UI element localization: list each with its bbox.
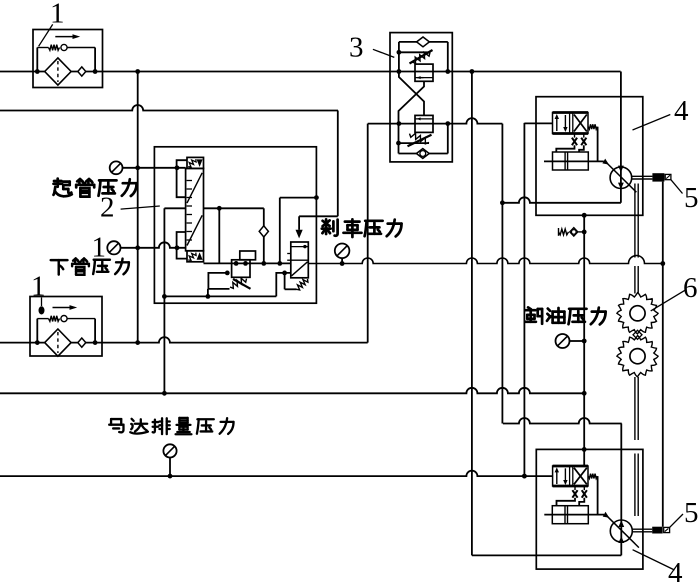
- label text motor displacement pressure: [109, 419, 123, 432]
- label 4 (top) with leader: [633, 115, 671, 131]
- filter 2 check valve: [78, 338, 86, 347]
- filter 2 bypass relief: [36, 319, 38, 343]
- valve block 2 enclosure: [154, 147, 316, 303]
- filter 1 flow arrow: [55, 36, 74, 38]
- wire supply line y=476.1: [0, 471, 553, 477]
- wire pilot elbow y=216.3: [299, 215, 338, 217]
- wire drain riser to brake valve port: [276, 273, 291, 297]
- orifice X symbols bottom: [574, 486, 576, 490]
- comp3 cross line A: [399, 81, 425, 123]
- main valve bottom spring-arrow box: [187, 251, 204, 262]
- servo cylinder top assembly: [553, 152, 589, 170]
- wire valve mid port y=208.3: [164, 207, 185, 209]
- main control valve column: [186, 168, 204, 250]
- wire pump line P2 y=110.5: [0, 105, 338, 110]
- svg-text:5: 5: [684, 182, 699, 214]
- gear wheel upper: [617, 293, 658, 334]
- filter 1 check valve: [78, 67, 86, 76]
- svg-text:5: 5: [684, 497, 699, 529]
- relief valve spring: [230, 278, 247, 288]
- motor assembly 4 (bottom) enclosure: [536, 449, 643, 569]
- svg-text:4: 4: [668, 557, 683, 582]
- servo cylinder bottom assembly: [552, 506, 588, 524]
- main valve lower diagonal: [187, 215, 202, 245]
- svg-text:2: 2: [100, 192, 115, 224]
- wire vertical x=524.4 valve feed branch: [523, 123, 525, 476]
- wire bottom motor return y=555.4: [472, 554, 621, 556]
- label 3 with leader: [373, 49, 394, 57]
- comp3 top check diamond: [417, 37, 430, 47]
- directional valve bottom assembly: [553, 466, 588, 486]
- comp3 bottom check valve: [416, 149, 429, 159]
- label text unload pressure: [525, 307, 542, 323]
- wire vertical x=662.8 brake line to brakes: [662, 182, 664, 527]
- gauge brake pressure: [335, 244, 350, 259]
- brake 5 bottom: [632, 528, 652, 530]
- hydraulic motor top: [620, 72, 622, 203]
- label 6 with leader: [651, 290, 685, 311]
- main valve pilot dashes: [187, 180, 192, 182]
- anti-cavitation check valve: [558, 228, 560, 236]
- label text lift-pipe pressure: [54, 179, 72, 197]
- check valve diamond in block 2: [263, 208, 265, 263]
- wire X to cylinder elbows: [556, 145, 574, 152]
- label 2 with leader: [121, 206, 160, 209]
- svg-text:4: 4: [674, 95, 689, 127]
- filter 2 flow arrow: [53, 307, 72, 309]
- wire tank line y=342.6: [0, 337, 368, 343]
- filter 1 bypass relief: [36, 48, 38, 72]
- directional valve spring bottom: [588, 474, 597, 479]
- main valve lower left bracket: [177, 232, 187, 259]
- main valve top spring-arrow box: [187, 157, 204, 168]
- variable displacement arrow (motor bottom): [606, 515, 639, 547]
- brake 5 top: [632, 175, 653, 177]
- wire X to cylinder elbows bottom: [557, 498, 576, 506]
- label 5 (top) with leader: [671, 180, 683, 194]
- directional valve crossed arrows: [574, 115, 587, 132]
- gauge unload pressure: [556, 334, 570, 348]
- relief valve port line y=263.4: [204, 262, 291, 264]
- svg-text:1: 1: [31, 271, 46, 303]
- brake pilot valve body: [291, 242, 309, 278]
- brake valve diagonal: [292, 262, 308, 276]
- wire vertical x=137.7 from P1 to tank line: [137, 72, 139, 343]
- directional valve top assembly: [553, 113, 589, 134]
- directional valve crossed arrows bottom: [574, 468, 587, 485]
- label 1 (filter top) with leader: [39, 24, 53, 46]
- svg-text:1: 1: [50, 0, 65, 30]
- wire vertical x=471.9 P1 branch to bottom motor: [471, 72, 473, 556]
- orifice X symbols: [574, 134, 576, 138]
- comp3 bottom spring + anchor: [399, 142, 430, 144]
- filter unit 1 enclosure: [33, 30, 103, 88]
- wire gauge to valve y=167.8: [123, 167, 186, 169]
- label text down-pipe pressure: [51, 260, 68, 275]
- cylinder rod line bottom: [544, 514, 604, 516]
- svg-text:3: 3: [349, 32, 364, 64]
- main valve upper diagonal: [187, 173, 202, 203]
- wire vertical x=584.2 unload line: [583, 215, 585, 466]
- label text brake pressure: [322, 219, 338, 235]
- svg-text:6: 6: [683, 272, 698, 304]
- comp3 top check loop: [398, 42, 400, 72]
- pilot line from spring to rod bottom: [597, 476, 599, 514]
- comp3 cross line B: [399, 72, 424, 116]
- hydraulic motor bottom: [620, 424, 622, 556]
- relief valve body: [232, 260, 250, 278]
- brake valve spring bottom: [297, 279, 308, 290]
- wire brake pressure line y=263.5: [308, 256, 663, 264]
- directional valve spring: [588, 124, 597, 129]
- gear shaft from top motor: [634, 184, 636, 258]
- gauge motor displacement pressure: [163, 444, 176, 457]
- wire vertical x=367.7 comp3 to tank: [367, 124, 369, 343]
- filter unit 2 enclosure: [30, 297, 102, 357]
- gear mesh mark: [633, 330, 642, 339]
- wire pilot y=197.6: [279, 198, 281, 264]
- comp3 upper relief body: [415, 64, 433, 81]
- directional valve arrows bottom: [556, 469, 558, 484]
- wire pump line P1 y=71.5: [0, 71, 621, 73]
- motor assembly 4 (top) enclosure: [536, 97, 643, 216]
- gear wheel lower: [617, 336, 658, 377]
- directional valve arrows (parallel position): [556, 116, 558, 132]
- gear shaft to bottom motor: [634, 377, 636, 440]
- rod arrowhead bottom: [603, 512, 610, 518]
- wire gauge to valve y=247.8: [121, 242, 186, 248]
- gauge 1 lift-pipe pressure: [110, 161, 123, 174]
- brake valve spring anchor: [285, 288, 297, 290]
- label 1 marker ball on filter 2: [39, 306, 45, 314]
- wire return line y=393.3: [0, 388, 585, 393]
- pilot line from spring to rod: [597, 127, 599, 162]
- filter 2 element (diamond with dashed line): [45, 329, 71, 356]
- filter 1 element (diamond with dashed line): [45, 58, 71, 85]
- gauge 1 down-pipe pressure: [107, 241, 120, 254]
- wire drain y=296.4: [164, 295, 276, 297]
- variable displacement arrow (motor top): [606, 162, 637, 192]
- rod arrowhead: [602, 159, 609, 165]
- label 5 (bottom) with leader: [670, 514, 683, 527]
- wire vertical x=164.4 valve drain: [163, 208, 165, 393]
- main valve upper left bracket: [177, 160, 187, 197]
- relief valve anchor bracket: [208, 273, 229, 289]
- wire vertical x=502.4 B-side branch: [501, 124, 503, 424]
- wire motor top port line y=202.8: [502, 197, 621, 202]
- comp3 top spring + anchor: [399, 51, 429, 53]
- brake valve pilot arrow: [296, 230, 303, 239]
- comp3 bottom check loop: [398, 124, 400, 154]
- label 4 (bottom) with leader: [633, 550, 675, 570]
- wire motor B-side y=123.6 (comp3 to x502): [368, 118, 503, 124]
- wire bottom motor feed y=423.5: [503, 418, 622, 424]
- wire vertical x=337.8 pilot from P2: [337, 111, 339, 217]
- wire branch x=219.3: [218, 208, 220, 263]
- counterbalance block 3 enclosure: [390, 33, 452, 162]
- wire valve feed elbow y=123.4: [524, 122, 552, 124]
- cylinder rod line: [544, 160, 604, 162]
- comp3 lower relief body: [415, 115, 433, 132]
